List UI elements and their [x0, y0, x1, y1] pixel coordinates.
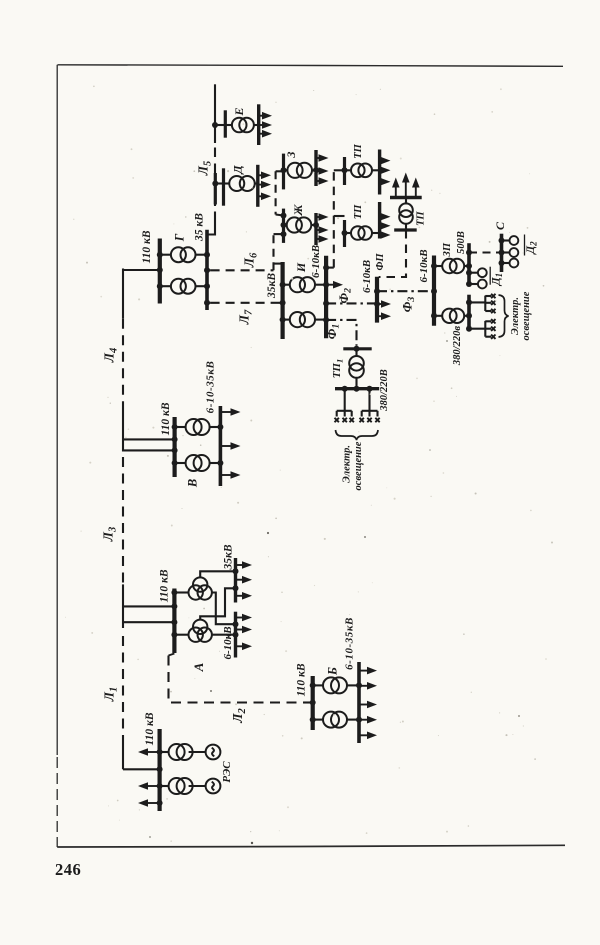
feeder arrow 1 on TP1	[380, 160, 384, 162]
wire TP3 transformer upper	[405, 198, 407, 205]
line L2 dashed	[169, 656, 304, 703]
line L6 stub at G bus	[207, 269, 211, 271]
svg-text:Ф2: Ф2	[337, 288, 354, 304]
junction dots on V secondary bus	[217, 424, 223, 430]
junction dots on V 110kV bus	[172, 424, 178, 430]
wire Zh transformer secondary	[311, 224, 316, 226]
junction dots on I 6-10kV bus	[323, 265, 329, 271]
feeder arrow 1 on E bus	[259, 115, 265, 117]
line L7 dashed horizontal	[211, 302, 271, 304]
load arrow 3 TP3	[415, 185, 417, 198]
motor D1b	[478, 280, 487, 289]
motor D2a	[510, 236, 519, 245]
svg-text:110 кВ: 110 кВ	[160, 402, 172, 435]
bus V 110kV	[173, 417, 177, 477]
svg-text:РЭС: РЭС	[221, 761, 233, 783]
transformer E	[232, 118, 254, 133]
wire V T2 secondary	[209, 462, 220, 464]
motor D2c	[510, 259, 519, 268]
cable link Z to Zh jog	[276, 170, 284, 172]
transformer TP1	[351, 164, 372, 178]
generator G2 RES	[206, 779, 221, 794]
lighting group right crossbar	[362, 410, 378, 412]
bus ZP 380/220V	[467, 295, 471, 329]
wire Z transformer primary	[284, 169, 288, 171]
wire A T1 6-10kV output	[212, 593, 236, 625]
bus TP2 primary	[343, 220, 346, 247]
svg-text:Электр.: Электр.	[510, 297, 521, 335]
svg-text:500В: 500В	[456, 231, 467, 254]
transformer TP3	[399, 203, 413, 223]
page border frame top line	[58, 65, 564, 67]
scan speckle noise	[65, 86, 553, 845]
feeder arrow 1 on A 35kV bus	[236, 564, 246, 566]
line L3 dashed segment	[122, 457, 124, 584]
lighting bar A	[484, 296, 486, 311]
cable link Z to Zh dashed	[275, 171, 277, 214]
wire G T1 secondary	[196, 254, 208, 256]
bus TP1-380 secondary 380/220V	[335, 387, 379, 390]
junction dots on I 35kV bus	[280, 282, 286, 288]
bus TP3 primary	[394, 228, 417, 231]
feeder arrow 1 on A 6-10kV bus	[236, 617, 246, 619]
svg-text:6-10-35кВ: 6-10-35кВ	[343, 617, 355, 670]
generator G1 RES	[206, 745, 221, 760]
transformer T2 G	[171, 279, 196, 294]
line L5 dashed D to E	[214, 141, 216, 174]
svg-text:380/220В: 380/220В	[379, 369, 390, 411]
svg-text:110 кВ: 110 кВ	[144, 712, 156, 745]
lighting group left crossbar	[337, 410, 352, 412]
feeder arrow 2 on E bus	[259, 124, 265, 126]
lighting group right drop	[368, 389, 370, 411]
transformer T2 ZP	[442, 309, 464, 323]
svg-text:ТП: ТП	[353, 204, 364, 219]
three-winding transformer T1 A	[189, 577, 212, 599]
feeder arrow 1 on Z bus	[316, 157, 322, 159]
wire TP3 transformer lower	[405, 223, 407, 230]
line L5 dashed G to D	[214, 205, 216, 220]
wire G T1 primary	[160, 254, 171, 256]
bus I 35kV	[281, 262, 285, 339]
line L6 dashed vertical riser	[272, 234, 274, 270]
outgoing arrow 3 from RES bus	[145, 802, 160, 804]
lighting lamps left	[335, 418, 339, 422]
junction dots TP1-380 secondary	[342, 386, 348, 392]
wire G T2 secondary	[196, 285, 208, 287]
wire branch to V bus lower	[123, 449, 175, 451]
transformer T2 I	[290, 312, 315, 327]
feeder arrow 5 on B bus	[359, 734, 370, 736]
svg-text:В: В	[185, 479, 199, 488]
svg-text:110 кВ: 110 кВ	[141, 230, 153, 263]
svg-text:ФП: ФП	[375, 253, 386, 271]
svg-text:Л5: Л5	[196, 161, 214, 177]
wire T2 to G2	[189, 785, 206, 787]
transformer Z	[287, 163, 312, 178]
wire TP2 transformer primary	[345, 232, 352, 234]
transformer T1 G	[171, 247, 196, 262]
bus TP3 secondary 0.4kV	[390, 196, 422, 199]
svg-text:А: А	[191, 662, 206, 672]
junction dot TP1	[342, 167, 348, 173]
wire A T2 primary	[174, 634, 189, 636]
wire RES T1 to bus	[160, 751, 170, 753]
junction dot on Zh secondary bus	[313, 222, 319, 228]
page border frame bottom line	[57, 845, 565, 847]
lighting bar B	[484, 321, 486, 337]
wire TP1 transformer primary	[345, 169, 352, 171]
feeder arrow 1 on B bus	[359, 670, 370, 672]
tap bus of station D on L5	[214, 173, 217, 205]
load arrow 2 TP3	[405, 180, 407, 198]
feeder arrow 1 on Zh bus	[316, 216, 322, 218]
lighting branches B	[485, 320, 491, 322]
wire A T2 6-10kV output	[212, 634, 236, 636]
junction dot TP1-380	[354, 346, 360, 352]
wire TP1-380 transformer upper	[355, 349, 357, 357]
lighting group left drop	[344, 389, 346, 411]
svg-text:110 кВ: 110 кВ	[159, 569, 171, 602]
svg-text:Л4: Л4	[102, 348, 120, 364]
wire ZP T1 secondary	[464, 265, 469, 267]
svg-text:Д: Д	[230, 165, 244, 175]
overline for label D1	[489, 267, 491, 285]
svg-text:З: З	[284, 151, 298, 158]
cable riser jog from I bus	[326, 267, 334, 269]
transformer T2 V	[186, 455, 210, 471]
wire ZP T2 primary	[434, 315, 443, 317]
wire corner from spine to station G bus	[123, 269, 160, 271]
wire I T2 secondary	[315, 319, 326, 321]
lighting lamp drops left	[336, 411, 338, 417]
svg-text:35кВ: 35кВ	[266, 273, 278, 299]
bus A 35kV	[234, 558, 237, 603]
lighting lamps A	[491, 294, 495, 298]
bus Zh primary 35kV	[282, 209, 285, 243]
feeder arrow 2 on TP2	[380, 225, 384, 227]
svg-text:Л6: Л6	[242, 252, 260, 268]
feeder arrow 3 on A 35kV bus	[236, 595, 246, 597]
wire V T1 secondary	[209, 426, 220, 428]
transformer T1 RES	[169, 744, 193, 760]
junction dots on A 35kV bus	[233, 568, 239, 574]
bus FP 6-10kV	[375, 277, 379, 323]
svg-text:освещение: освещение	[521, 291, 532, 340]
lighting stub B from ZP	[469, 328, 485, 330]
wire spine solid above station V	[122, 402, 124, 452]
bus B secondary	[357, 662, 361, 743]
bus A 110kV	[172, 589, 176, 654]
wire spine solid above RES	[122, 737, 124, 769]
wire D transformer primary	[224, 182, 230, 184]
bus Zh secondary	[314, 213, 317, 245]
outgoing arrow 1 from RES bus	[145, 751, 160, 753]
wire TP1 transformer secondary	[372, 169, 380, 171]
svg-text:Л2: Л2	[230, 707, 248, 723]
feeder arrow 3 on A 6-10kV bus	[236, 645, 246, 647]
wire ZP T2 secondary	[464, 315, 469, 317]
bus D secondary	[256, 165, 259, 207]
junction dots ZP 500V bus	[466, 250, 472, 256]
line L6 dashed horizontal	[211, 269, 274, 271]
bus TP1 secondary	[378, 150, 381, 195]
bus ZP 500V	[467, 243, 471, 286]
feeder arrow 3 on TP1	[380, 181, 384, 183]
wire I T1 secondary	[315, 284, 326, 286]
junction dots on A 110kV bus	[171, 590, 177, 596]
svg-text:Л3: Л3	[101, 527, 119, 543]
svg-text:освещение: освещение	[353, 441, 364, 490]
feeder F2 cable from I bus	[326, 302, 377, 304]
wire spine solid below G corner	[122, 269, 124, 319]
line L6 jog into Zh bus	[274, 233, 284, 235]
wire ZP T1 primary	[434, 265, 443, 267]
transformer T1 B	[323, 677, 347, 693]
wire into B bus	[304, 701, 313, 703]
feeder arrow 3 on V bus	[220, 474, 233, 476]
wire G T2 primary	[160, 285, 171, 287]
wire Zh transformer primary	[284, 224, 287, 226]
bus Z secondary	[314, 150, 317, 186]
feeder F1 cable from I bus	[326, 320, 356, 346]
wire E junction to E bus	[215, 124, 225, 126]
junction dot L5 at E	[212, 122, 218, 128]
svg-text:Д2: Д2	[525, 241, 539, 255]
svg-text:380/220в: 380/220в	[452, 326, 463, 366]
junction dot on D tap bus	[212, 181, 218, 187]
brace under lighting group	[336, 430, 379, 440]
wire I T1 primary	[283, 284, 290, 286]
feeder arrow 3 on Z bus	[316, 180, 322, 182]
wire TP1-380 transformer lower	[355, 378, 357, 389]
cable 500V bus to C dashed	[469, 251, 502, 253]
wire V T1 primary	[175, 426, 186, 428]
svg-text:35 кВ: 35 кВ	[194, 213, 206, 242]
transformer T2 B	[323, 712, 347, 728]
bus G 35kV	[205, 230, 209, 310]
junction dots on Zh bus	[281, 213, 287, 219]
feeder F3 cable FP to ZP	[377, 290, 434, 292]
svg-text:Ф3: Ф3	[400, 297, 417, 313]
line L6 tap jog into I bus top	[274, 263, 283, 265]
junction dots on FP bus	[374, 288, 380, 294]
wire I T2 primary	[283, 319, 290, 321]
svg-text:Д1: Д1	[490, 273, 504, 286]
bus E secondary	[257, 104, 260, 145]
lighting branches A	[485, 295, 491, 297]
wire B T1 secondary	[347, 684, 359, 686]
feeder arrow 1 on V bus	[220, 411, 233, 413]
bus G 110kV	[158, 239, 162, 304]
feeder arrow 1 on TP2	[380, 216, 384, 218]
feeder arrow 1 on FP bus	[377, 303, 384, 305]
junction dot on Z secondary bus	[313, 167, 319, 173]
cable link jog into Zh bus	[276, 215, 284, 216]
svg-text:35кВ: 35кВ	[223, 544, 235, 570]
feeder arrow 2 on Z bus	[316, 170, 322, 172]
transformer TP1-380	[349, 356, 364, 378]
junction dot on Z bus	[281, 167, 287, 173]
line L5 jog from G bus top	[207, 220, 215, 235]
feeder arrow 1 on D bus	[258, 174, 264, 176]
junction dots on G 35kV bus	[204, 252, 210, 258]
feeder arrow 2 on B bus	[359, 685, 370, 687]
feeder arrow 2 on A 6-10kV bus	[236, 629, 246, 631]
svg-text:Л7: Л7	[237, 309, 255, 325]
transformer Zh	[287, 217, 312, 232]
feeder arrow 3 on B bus	[359, 704, 370, 706]
svg-text:6-10кВ: 6-10кВ	[361, 260, 373, 293]
wire motor D1b	[469, 283, 478, 285]
junction dots on RES bus	[157, 749, 163, 755]
svg-text:ТП: ТП	[415, 211, 426, 226]
junction dots on B secondary bus	[356, 682, 362, 688]
wire spine solid above station A	[122, 584, 124, 628]
feeder arrow 2 on TP1	[380, 169, 384, 171]
svg-text:ТП: ТП	[353, 143, 364, 158]
line L4 dashed segment	[122, 319, 124, 402]
feeder arrow 3 on D bus	[258, 195, 264, 197]
line L5 continuation stub above E	[214, 84, 216, 125]
junction dots on A 6-10kV bus	[233, 621, 239, 627]
svg-text:6-10кВ: 6-10кВ	[310, 245, 322, 278]
bus I 6-10kV	[324, 256, 328, 339]
bus TP2 secondary	[378, 202, 381, 239]
wire TP2 transformer secondary	[372, 232, 380, 234]
line L2 jog from A bus	[169, 654, 175, 656]
lighting lamps right	[360, 418, 364, 422]
bus B 110kV	[311, 676, 315, 730]
wire branch to A bus upper	[123, 605, 174, 607]
bus RES 110kV	[158, 729, 162, 811]
wire RES T2 to bus	[160, 785, 170, 787]
junction dot TP2	[342, 230, 348, 236]
svg-text:Е: Е	[232, 107, 246, 116]
wire B T2 primary	[313, 719, 324, 721]
wire E transformer primary	[225, 124, 232, 126]
svg-text:6-10-35кВ: 6-10-35кВ	[205, 361, 217, 414]
svg-text:246: 246	[55, 860, 81, 879]
wire D tap to D bus	[215, 182, 223, 184]
feeder arrow on I 6-10kV bus	[326, 284, 336, 286]
lighting stub A from ZP	[469, 301, 485, 303]
feeder arrow 4 on B bus	[359, 719, 370, 721]
motor D1a	[478, 268, 487, 277]
junction dots ZP 380 bus	[466, 299, 472, 305]
svg-text:Ж: Ж	[291, 204, 305, 217]
svg-text:Электр.: Электр.	[342, 445, 353, 483]
brace right of ZP lighting	[499, 295, 509, 337]
junction dots on G 110kV bus	[157, 252, 163, 258]
line L7 stub at G bus	[207, 302, 211, 304]
wire A T1 primary	[174, 591, 189, 593]
junction dots C bus	[499, 238, 505, 244]
feeder arrow 2 on Zh bus	[316, 229, 322, 231]
wire L5 solid at E junction	[214, 125, 216, 143]
feeder arrow 2 on A 35kV bus	[236, 579, 246, 581]
svg-text:6-10кВ: 6-10кВ	[418, 249, 430, 282]
junction dots ZP bus	[431, 263, 437, 269]
jog into TP1 primary bus	[334, 169, 345, 171]
wire motor D2a	[502, 239, 510, 241]
wire motor D1a	[469, 272, 478, 274]
page border frame left line	[56, 65, 58, 755]
feeder arrow 3 on Zh bus	[316, 238, 322, 240]
svg-text:Г: Г	[173, 233, 187, 242]
outgoing arrow 2 from RES bus	[145, 785, 160, 787]
svg-text:Б: Б	[326, 667, 340, 676]
transformer D	[229, 176, 255, 191]
wire A T2 35kV output crossing	[200, 588, 235, 619]
bus D primary 35kV	[222, 168, 225, 205]
three-winding transformer T2 A	[189, 620, 212, 642]
bus V secondary	[219, 406, 223, 486]
svg-text:110 кВ: 110 кВ	[296, 663, 308, 696]
svg-text:С: С	[493, 221, 507, 230]
bus TP1-380 primary	[343, 347, 371, 350]
transformer T1 V	[186, 419, 210, 435]
wire branch to V bus upper	[123, 438, 175, 440]
feeder arrow 3 on TP2	[380, 234, 384, 236]
bus TP1 primary	[343, 157, 346, 185]
svg-text:6-10кВ: 6-10кВ	[222, 626, 234, 659]
junction dots on B 110kV bus	[310, 682, 316, 688]
wire corner into RES bus	[123, 768, 160, 770]
wire V T2 primary	[175, 462, 186, 464]
svg-text:ТП1: ТП1	[331, 359, 345, 379]
feeder arrow 2 on D bus	[258, 184, 264, 186]
lighting lamps B	[491, 319, 495, 323]
line L1 dashed segment	[122, 636, 124, 737]
bus Z primary 35kV	[282, 154, 285, 190]
overline for label D2	[524, 235, 526, 256]
jog into TP2 primary bus	[334, 215, 345, 217]
bus C 500V	[500, 234, 504, 272]
svg-text:И: И	[294, 262, 308, 273]
svg-text:Л1: Л1	[102, 687, 120, 703]
bus A 6-10kV	[234, 612, 237, 658]
svg-text:ЗП: ЗП	[442, 242, 453, 257]
wire A T1 35kV output	[200, 571, 235, 577]
wire Z transformer secondary	[312, 169, 316, 171]
bus E primary 35kV	[224, 110, 227, 137]
cable TP3 to FP dashed	[379, 230, 406, 277]
wire E transformer secondary	[254, 124, 259, 126]
wire motor D2c	[502, 262, 510, 264]
feeder arrow 2 on V bus	[220, 445, 233, 447]
wire T1 to G1	[189, 751, 206, 753]
wire branch to A bus lower	[123, 621, 174, 623]
transformer T2 RES	[169, 778, 193, 794]
bus ZP primary 6-10kV	[432, 256, 436, 326]
transformer T1 I	[290, 277, 315, 292]
transformer TP2	[351, 226, 372, 240]
line L7 solid into I bus	[271, 302, 283, 304]
feeder arrow 3 on E bus	[259, 133, 265, 135]
load arrow 1 TP3	[395, 185, 397, 198]
transformer T1 ZP	[442, 259, 464, 273]
cable riser dashed to TP1 TP2	[333, 170, 335, 267]
wire B T1 primary	[313, 684, 324, 686]
feeder arrow 2 on FP bus	[377, 315, 384, 317]
wire B T2 secondary	[347, 719, 359, 721]
lighting lamp drops right	[361, 411, 363, 417]
wire motor D2b	[502, 251, 510, 253]
motor D2b	[510, 248, 519, 257]
wire D transformer secondary	[255, 182, 258, 184]
